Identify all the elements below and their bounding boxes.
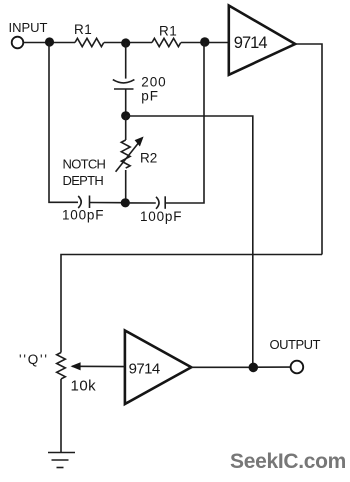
resistor R2 (variable, notch depth) <box>116 137 158 172</box>
svg-text:DEPTH: DEPTH <box>63 173 104 188</box>
wire R1 to R1 <box>104 42 152 44</box>
node junction at U1 input <box>200 37 209 46</box>
wire left input rail down <box>49 42 78 202</box>
input terminal <box>12 37 24 49</box>
svg-text:9714: 9714 <box>234 34 268 52</box>
svg-text:''Q'': ''Q'' <box>19 352 49 367</box>
svg-text:10k: 10k <box>71 378 97 395</box>
svg-text:R1: R1 <box>74 22 92 37</box>
resistor R1 (first) <box>74 22 104 47</box>
wire pot to ground <box>60 379 62 452</box>
wire left cap to center node <box>90 202 123 204</box>
label NOTCH DEPTH <box>63 156 106 188</box>
node junction at input <box>45 37 54 46</box>
wire U1 output down right side <box>295 44 323 255</box>
svg-text:200: 200 <box>141 74 166 89</box>
node junction twin-T bottom center <box>121 198 130 207</box>
node junction 200pF / R2 / bootstrap <box>121 111 130 120</box>
svg-text:R1: R1 <box>159 24 177 39</box>
node junction between R1s <box>121 38 130 47</box>
svg-text:9714: 9714 <box>129 361 160 378</box>
svg-text:100pF: 100pF <box>62 208 104 223</box>
wire R2 to bottom node <box>125 170 127 199</box>
svg-text:100pF: 100pF <box>140 209 182 224</box>
svg-text:R2: R2 <box>140 151 157 166</box>
wire input terminal to R1 <box>23 42 75 44</box>
ground <box>48 453 75 468</box>
capacitor 100pF (left) <box>62 196 104 223</box>
wire node to R2 <box>125 116 127 140</box>
svg-text:pF: pF <box>141 89 159 104</box>
wire feedback bottom horizontal to pot <box>61 255 322 353</box>
wire pot wiper to U2 input <box>72 365 125 367</box>
capacitor C 200pF <box>113 74 167 103</box>
wiper arrow of pot Q <box>71 362 81 370</box>
op-amp U1 9714 <box>229 6 295 75</box>
OUTPUT terminal <box>291 361 304 374</box>
op-amp U2 9714 <box>125 331 191 405</box>
node junction U2 output <box>249 363 259 373</box>
wire U2 output to output node <box>191 366 249 368</box>
wire center node to right cap <box>129 202 156 204</box>
svg-text:SeekIC.com: SeekIC.com <box>230 450 346 473</box>
svg-text:INPUT: INPUT <box>9 20 48 35</box>
capacitor 100pF (right) <box>140 196 182 224</box>
svg-text:OUTPUT: OUTPUT <box>270 337 321 352</box>
resistor R1 (second) <box>152 24 181 47</box>
wire to OUTPUT terminal <box>258 366 291 368</box>
potentiometer Q 10k <box>19 352 96 395</box>
svg-text:NOTCH: NOTCH <box>63 156 106 171</box>
wire right cap up to U1 input node <box>165 43 204 204</box>
wire R1 to op-amp U1 <box>181 42 229 44</box>
wire 200pF to node <box>125 89 127 112</box>
wire bootstrap from node to U2 output <box>126 116 253 367</box>
wire junction between R1s down to 200pF <box>125 43 127 79</box>
